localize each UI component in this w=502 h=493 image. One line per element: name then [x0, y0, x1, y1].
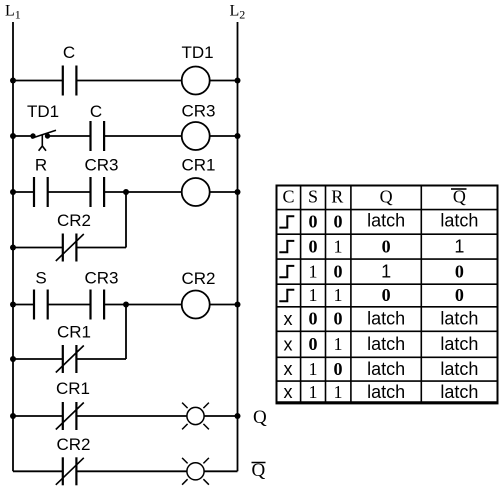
- node L2: [237, 22, 239, 471]
- svg-text:0: 0: [455, 261, 464, 281]
- junction L1-rung3: [10, 189, 16, 195]
- svg-text:Q: Q: [253, 407, 267, 428]
- svg-text:Q: Q: [380, 186, 393, 206]
- svg-text:1: 1: [334, 382, 343, 402]
- svg-text:1: 1: [309, 261, 318, 281]
- wire rung3 mid2: [104, 191, 182, 193]
- svg-text:latch: latch: [440, 359, 478, 379]
- coil CR2: [182, 291, 210, 319]
- svg-text:C: C: [63, 43, 75, 62]
- svg-text:R: R: [331, 186, 343, 206]
- svg-text:latch: latch: [367, 382, 405, 402]
- svg-text:CR2: CR2: [56, 435, 90, 454]
- svg-text:latch: latch: [440, 211, 478, 231]
- contact CR1 NC: [56, 345, 84, 373]
- truth table rows: [279, 211, 478, 403]
- svg-text:0: 0: [334, 359, 343, 379]
- wire rung3 left: [13, 191, 34, 193]
- junction L1-rung2: [10, 133, 16, 139]
- junction L2-rung5: [235, 302, 241, 308]
- svg-text:0: 0: [334, 212, 343, 232]
- wire rung2 left: [13, 135, 33, 137]
- lamp Q: [182, 403, 209, 430]
- coil CR3: [182, 122, 210, 150]
- svg-text:S: S: [35, 269, 46, 288]
- svg-text:latch: latch: [440, 382, 478, 402]
- svg-text:latch: latch: [440, 334, 478, 354]
- svg-text:C: C: [282, 186, 294, 206]
- svg-text:1: 1: [309, 382, 318, 402]
- node L1: [12, 22, 14, 471]
- svg-text:x: x: [284, 382, 293, 402]
- wire rung8 mid: [76, 470, 186, 472]
- svg-text:R: R: [35, 156, 47, 175]
- wire branch CR2 vertical: [125, 192, 127, 248]
- wire rung5 left: [13, 304, 34, 306]
- lamp Qbar: [182, 458, 209, 485]
- coil CR1: [182, 178, 210, 206]
- junction rung5-branch: [123, 302, 129, 308]
- svg-text:1: 1: [381, 261, 391, 281]
- junction L1-branchCR2: [10, 245, 16, 251]
- wire rung2 mid2: [104, 135, 182, 137]
- junction rung3-branch: [123, 189, 129, 195]
- wire rung8 left: [13, 470, 63, 472]
- wire rung2 mid1: [48, 135, 91, 137]
- wire rung3 mid1: [48, 191, 91, 193]
- svg-text:1: 1: [309, 359, 318, 379]
- svg-text:x: x: [284, 334, 293, 354]
- junction L1-branchCR1: [10, 356, 16, 362]
- wire branch CR2 right: [76, 247, 126, 249]
- svg-text:CR1: CR1: [56, 379, 90, 398]
- wire rung5 mid1: [48, 304, 91, 306]
- svg-text:CR3: CR3: [181, 102, 215, 121]
- contact TD1 timed (NOTC): [30, 130, 56, 151]
- svg-text:CR2: CR2: [57, 211, 91, 230]
- svg-text:1: 1: [454, 236, 464, 256]
- coil TD1: [182, 67, 210, 95]
- svg-text:TD1: TD1: [27, 102, 59, 121]
- contact CR3 rung5: [91, 290, 105, 320]
- junction L1-rung7: [10, 413, 16, 419]
- junction L2-rung2: [235, 133, 241, 139]
- wire branch CR1 left: [13, 358, 63, 360]
- svg-text:C: C: [90, 102, 102, 121]
- svg-text:latch: latch: [367, 309, 405, 329]
- svg-text:CR3: CR3: [84, 269, 118, 288]
- wire branch CR2 left: [13, 247, 63, 249]
- svg-text:latch: latch: [367, 334, 405, 354]
- svg-text:TD1: TD1: [181, 43, 213, 62]
- svg-text:S: S: [308, 186, 318, 206]
- svg-text:0: 0: [455, 285, 464, 305]
- wire rung1 right: [210, 80, 238, 82]
- svg-text:CR1: CR1: [181, 156, 215, 175]
- wire rung5 right: [210, 304, 238, 306]
- junction L1-rung5: [10, 302, 16, 308]
- wire rung7 left: [13, 415, 63, 417]
- svg-text:CR2: CR2: [181, 269, 215, 288]
- contact CR2 NC rung8: [56, 457, 84, 485]
- wire branch CR1 vertical: [125, 305, 127, 360]
- wire branch CR1 right: [76, 358, 126, 360]
- svg-text:0: 0: [309, 212, 318, 232]
- wire rung1 left: [13, 80, 63, 82]
- svg-text:0: 0: [334, 261, 343, 281]
- svg-text:CR3: CR3: [84, 156, 118, 175]
- junction L2-rung7: [235, 413, 241, 419]
- contact S: [34, 290, 48, 320]
- contact C rung1: [63, 66, 77, 96]
- svg-text:0: 0: [334, 309, 343, 329]
- truth table header: [282, 186, 465, 206]
- contact CR2 NC: [56, 234, 84, 262]
- wire rung3 right: [210, 191, 238, 193]
- truth table grid: [277, 186, 498, 404]
- junction L1-rung1: [10, 78, 16, 84]
- svg-text:1: 1: [334, 285, 343, 305]
- wire rung2 right: [210, 135, 238, 137]
- svg-text:0: 0: [309, 334, 318, 354]
- svg-text:1: 1: [334, 334, 343, 354]
- svg-text:L2: L2: [230, 3, 246, 22]
- svg-text:0: 0: [309, 236, 318, 256]
- svg-text:latch: latch: [440, 309, 478, 329]
- junction L2-rung1: [235, 78, 241, 84]
- wire rung1 mid: [76, 80, 181, 82]
- wire rung8 right: [205, 470, 238, 472]
- contact CR1 NC rung7: [56, 402, 84, 430]
- junction L2-rung3: [235, 189, 241, 195]
- contact R: [34, 177, 48, 207]
- wire rung5 mid2: [104, 304, 182, 306]
- svg-text:1: 1: [334, 236, 343, 256]
- contact C rung2: [91, 121, 105, 151]
- svg-text:1: 1: [309, 285, 318, 305]
- svg-text:CR1: CR1: [57, 323, 91, 342]
- svg-text:0: 0: [382, 236, 391, 256]
- svg-text:latch: latch: [367, 211, 405, 231]
- wire rung7 right: [205, 415, 238, 417]
- svg-text:latch: latch: [367, 359, 405, 379]
- wire rung7 mid: [76, 415, 186, 417]
- svg-text:L1: L1: [5, 3, 21, 22]
- svg-text:0: 0: [309, 309, 318, 329]
- svg-text:x: x: [284, 309, 293, 329]
- svg-text:x: x: [284, 359, 293, 379]
- contact CR3 rung3: [91, 177, 105, 207]
- svg-text:0: 0: [382, 285, 391, 305]
